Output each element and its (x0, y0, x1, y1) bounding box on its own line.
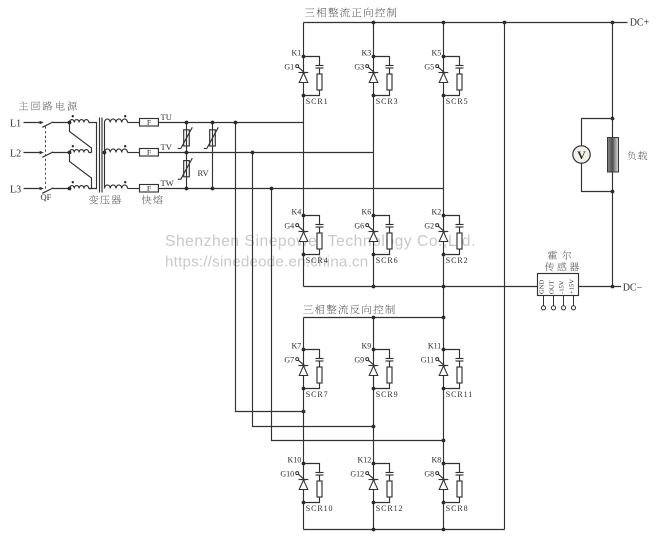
wire breaker to transformer L1 (53, 122, 70, 124)
snubber capacitor (SCR11) (456, 358, 464, 360)
snubber wires SCR8 (444, 464, 460, 503)
svg-text:G9: G9 (354, 355, 364, 364)
polarity dot primary 1 (72, 115, 74, 117)
svg-text:K11: K11 (428, 341, 441, 350)
title: three-phase rectifier forward control (305, 7, 396, 17)
load resistor (608, 138, 619, 173)
thyristor SCR7: junction triangle (299, 366, 308, 376)
node SCR3 anode (372, 94, 376, 98)
wire phase V (TV) (158, 152, 373, 154)
svg-text:G3: G3 (354, 62, 364, 71)
node K5 (cathode) (442, 55, 446, 59)
snubber capacitor (SCR3) (386, 65, 394, 67)
snubber capacitor (SCR2) (456, 224, 464, 226)
thyristor SCR9: cathode bar (369, 365, 379, 367)
svg-text:L1: L1 (10, 119, 21, 130)
svg-text:G6: G6 (354, 221, 364, 230)
svg-text:L2: L2 (10, 149, 21, 160)
wire L3 to breaker (24, 188, 41, 190)
svg-text:F: F (147, 184, 152, 193)
label: hall sensor (huoer chuanganqi) (548, 250, 571, 259)
node K8 (cathode) (442, 462, 446, 466)
node K10 (cathode) (302, 462, 306, 466)
polarity dot secondary 1 (124, 115, 126, 117)
node bottom rail / column V (372, 528, 376, 532)
wire: delta link primary 2-3 (70, 153, 92, 189)
svg-text:+15V: +15V (569, 279, 576, 294)
fuse F1 (140, 119, 159, 127)
fuse F3 (140, 185, 159, 193)
gate terminal G12 (366, 472, 369, 475)
wire DC+ return bus (right) (504, 23, 506, 530)
snubber capacitor (SCR8) (456, 472, 464, 474)
transformer T primary winding 1 (70, 120, 89, 123)
thyristor SCR2: junction triangle (439, 232, 448, 242)
svg-text:G5: G5 (424, 62, 434, 71)
node phase V tap (251, 151, 255, 155)
label: main circuit power supply (19, 101, 77, 110)
snubber wires SCR11 (444, 350, 460, 389)
node load branch top (611, 117, 615, 121)
node top rail / column V (372, 21, 376, 25)
svg-text:G1: G1 (284, 62, 294, 71)
svg-text:TV: TV (161, 142, 173, 152)
node K7 (cathode) (302, 348, 306, 352)
svg-text:SCR9: SCR9 (376, 390, 399, 399)
thyristor SCR4: cathode bar (299, 231, 309, 233)
svg-text:K2: K2 (432, 207, 442, 216)
transformer T primary winding 2 (70, 150, 89, 153)
transformer T primary winding 3 (70, 186, 89, 189)
thyristor SCR9: junction triangle (369, 366, 378, 376)
svg-text:DC+: DC+ (630, 18, 650, 29)
snubber resistor (SCR11) (457, 367, 462, 383)
wire column U lower (303, 318, 305, 530)
thyristor SCR6: cathode bar (369, 231, 379, 233)
thyristor SCR8: cathode bar (439, 479, 449, 481)
svg-text:G11: G11 (421, 355, 434, 364)
svg-text:SCR1: SCR1 (306, 97, 329, 106)
thyristor SCR5: junction triangle (439, 73, 448, 83)
snubber wires SCR9 (374, 350, 390, 389)
thyristor SCR3: junction triangle (369, 73, 378, 83)
breaker QF pole L2: blade (42, 152, 53, 157)
svg-text:G10: G10 (280, 469, 294, 478)
wire DC+ top rail (304, 22, 628, 24)
thyristor SCR11: cathode bar (439, 365, 449, 367)
snubber resistor (SCR4) (317, 233, 322, 249)
node RV2 top (211, 121, 215, 125)
wire L1 to breaker (24, 122, 41, 124)
thyristor SCR4: junction triangle (299, 232, 308, 242)
node SCR6 anode (372, 253, 376, 257)
svg-text:G12: G12 (350, 469, 364, 478)
snubber wires SCR7 (304, 350, 320, 389)
wire phase W (TW) (158, 188, 443, 190)
breaker QF pole L3: blade (42, 188, 53, 193)
polarity dot primary 2 (72, 145, 74, 147)
voltmeter PV (573, 146, 590, 163)
node SCR9 anode (372, 387, 376, 391)
svg-text:SCR7: SCR7 (306, 390, 329, 399)
snubber resistor (SCR2) (457, 233, 462, 249)
svg-text:K10: K10 (288, 455, 302, 464)
snubber capacitor (SCR4) (316, 224, 324, 226)
snubber wires SCR1 (304, 57, 320, 96)
transformer core (99, 118, 101, 193)
wire column V lower (373, 318, 375, 530)
polarity dot primary 3 (72, 181, 74, 183)
label: fast fuse (kuairong) (142, 195, 163, 204)
svg-text:G2: G2 (424, 221, 434, 230)
node: primary 1 input (68, 121, 72, 125)
thyristor SCR11: junction triangle (439, 366, 448, 376)
node reverse rail / column W (442, 316, 446, 320)
snubber capacitor (SCR1) (316, 65, 324, 67)
gate terminal G4 (296, 224, 299, 227)
snubber resistor (SCR12) (387, 481, 392, 497)
node reverse bridge phase W (442, 439, 446, 443)
node K11 (cathode) (442, 348, 446, 352)
node load branch bottom (611, 190, 615, 194)
gate terminal G11 (436, 358, 439, 361)
svg-text:GND: GND (539, 279, 546, 294)
thyristor SCR1: junction triangle (299, 73, 308, 83)
wire column W (SCR5/2/11/8) (443, 23, 445, 530)
svg-text:K3: K3 (362, 48, 372, 57)
wire secondary 3 to fuse (128, 188, 140, 190)
node RV1 bottom (185, 151, 189, 155)
gate terminal G8 (436, 472, 439, 475)
node DC- rail / column W (442, 285, 446, 289)
thyristor SCR5: cathode bar (439, 72, 449, 74)
thyristor SCR7: cathode bar (299, 365, 309, 367)
thyristor SCR6: junction triangle (369, 232, 378, 242)
svg-text:DC−: DC− (623, 282, 643, 293)
node SCR1 anode (302, 94, 306, 98)
title: three-phase rectifier reverse control (303, 304, 394, 314)
node SCR8 anode (442, 501, 446, 505)
snubber wires SCR10 (304, 464, 320, 503)
wire breaker to transformer L3 (53, 188, 70, 190)
gate terminal G6 (366, 224, 369, 227)
snubber resistor (SCR6) (387, 233, 392, 249)
node K1 (cathode) (302, 55, 306, 59)
node SCR10 anode (302, 501, 306, 505)
node top rail / DC+ return bus (503, 21, 507, 25)
varistor RV2 (U-W) (210, 130, 216, 146)
wire phase V drop to reverse bridge (253, 153, 374, 427)
svg-text:K7: K7 (292, 341, 302, 350)
label: transformer (bianyaqi) (89, 195, 121, 204)
wire RV2 (212, 123, 214, 189)
svg-text:K12: K12 (358, 455, 372, 464)
thyristor SCR8: junction triangle (439, 480, 448, 490)
svg-text:V: V (577, 148, 586, 162)
node SCR7 anode (302, 387, 306, 391)
gate terminal G1 (296, 65, 299, 68)
node SCR11 anode (442, 387, 446, 391)
wire: delta link primary 1-2 (70, 123, 92, 153)
wire L2 to breaker (24, 152, 41, 154)
node RV2 bottom (211, 187, 215, 191)
svg-text:SCR3: SCR3 (376, 97, 399, 106)
snubber resistor (SCR3) (387, 74, 392, 90)
transformer secondary star bus (104, 123, 106, 189)
node: star point (103, 151, 107, 155)
snubber resistor (SCR8) (457, 481, 462, 497)
node K9 (cathode) (372, 348, 376, 352)
svg-text:K9: K9 (362, 341, 372, 350)
transformer T secondary winding 3 (105, 185, 128, 189)
snubber resistor (SCR10) (317, 481, 322, 497)
node reverse bridge phase U (302, 410, 306, 414)
wire: delta link primary 3-1 (right side) (89, 123, 97, 189)
fuse F2 (140, 149, 159, 157)
svg-text:L3: L3 (10, 185, 21, 196)
thyristor SCR2: cathode bar (439, 231, 449, 233)
svg-text:SCR10: SCR10 (306, 504, 334, 513)
wire load feeder (612, 23, 614, 287)
svg-text:SCR11: SCR11 (446, 390, 473, 399)
breaker QF pole L1: contact arrow (40, 121, 44, 124)
varistor RV1 (U-V) (184, 130, 190, 146)
wire voltmeter branch (582, 119, 613, 192)
thyristor SCR10: cathode bar (299, 479, 309, 481)
breaker QF linkage (dashed) (45, 127, 47, 191)
node SCR4 anode (302, 253, 306, 257)
svg-text:F: F (147, 148, 152, 157)
snubber capacitor (SCR12) (386, 472, 394, 474)
wire reverse bridge bottom rail (304, 529, 505, 531)
svg-text:SCR8: SCR8 (446, 504, 469, 513)
label: load (fuzai) (627, 151, 647, 160)
snubber capacitor (SCR7) (316, 358, 324, 360)
node K12 (cathode) (372, 462, 376, 466)
snubber capacitor (SCR5) (456, 65, 464, 67)
node K6 (cathode) (372, 214, 376, 218)
node reverse rail / column V (372, 316, 376, 320)
snubber resistor (SCR5) (457, 74, 462, 90)
wire column U (SCR1/4/7/10) upper (303, 23, 305, 287)
snubber capacitor (SCR6) (386, 224, 394, 226)
breaker QF pole L1: blade (42, 122, 53, 127)
gate terminal G9 (366, 358, 369, 361)
svg-text:SCR5: SCR5 (446, 97, 469, 106)
wire phase U (TU) (158, 122, 303, 124)
node top rail / column W (442, 21, 446, 25)
thyristor SCR1: cathode bar (299, 72, 309, 74)
node K4 (cathode) (302, 214, 306, 218)
transformer T secondary winding 1 (105, 119, 128, 123)
wire breaker to transformer L2 (53, 152, 70, 154)
node DC- rail / column V (372, 285, 376, 289)
svg-text:TW: TW (161, 178, 174, 188)
svg-text:K5: K5 (432, 48, 442, 57)
svg-text:SCR4: SCR4 (306, 256, 329, 265)
svg-text:K1: K1 (292, 48, 302, 57)
wire column V (SCR3/6/9/12) upper (373, 23, 375, 287)
svg-text:F: F (147, 118, 152, 127)
snubber resistor (SCR1) (317, 74, 322, 90)
varistor RV3 (V-W) (184, 161, 190, 177)
breaker QF pole L2: contact arrow (40, 151, 44, 154)
wire DC- rail (forward bridge cathode bus) (304, 286, 538, 288)
wire RV3 (186, 153, 188, 189)
svg-text:QF: QF (41, 192, 52, 202)
snubber resistor (SCR7) (317, 367, 322, 383)
node phase U tap (234, 121, 238, 125)
node SCR5 anode (442, 94, 446, 98)
thyristor SCR12: junction triangle (369, 480, 378, 490)
gate terminal G7 (296, 358, 299, 361)
wire secondary 2 to fuse (128, 152, 140, 154)
node bottom rail / column W (442, 528, 446, 532)
snubber resistor (SCR9) (387, 367, 392, 383)
snubber capacitor (SCR10) (316, 472, 324, 474)
polarity dot secondary 2 (124, 145, 126, 147)
node SCR12 anode (372, 501, 376, 505)
node reverse bridge phase V (372, 425, 376, 429)
wire phase W drop to reverse bridge (272, 189, 444, 441)
snubber wires SCR2 (444, 216, 460, 255)
gate terminal G2 (436, 224, 439, 227)
svg-text:SCR12: SCR12 (376, 504, 404, 513)
node DC- junction (611, 285, 615, 289)
svg-text:K6: K6 (362, 207, 372, 216)
node: primary 2 input (68, 151, 72, 155)
node top rail / load branch (611, 21, 615, 25)
node SCR2 anode (442, 253, 446, 257)
transformer T secondary winding 2 (105, 149, 128, 153)
thyristor SCR3: cathode bar (369, 72, 379, 74)
hall current sensor body (538, 274, 579, 296)
svg-text:TU: TU (161, 112, 172, 122)
svg-text:OUT: OUT (549, 280, 556, 294)
gate terminal G5 (436, 65, 439, 68)
node K3 (cathode) (372, 55, 376, 59)
wire RV1 (186, 123, 188, 153)
thyristor SCR12: cathode bar (369, 479, 379, 481)
gate terminal G3 (366, 65, 369, 68)
snubber wires SCR5 (444, 57, 460, 96)
snubber wires SCR6 (374, 216, 390, 255)
gate terminal G10 (296, 472, 299, 475)
wire reverse bridge top rail (304, 317, 444, 319)
svg-text:https://sinedeode.en.china.cn: https://sinedeode.en.china.cn (165, 254, 368, 271)
node RV3 bottom (185, 187, 189, 191)
svg-text:SCR2: SCR2 (446, 256, 469, 265)
svg-text:SCR6: SCR6 (376, 256, 399, 265)
wire hall sensor output to DC- (579, 286, 622, 288)
node RV1 top (185, 121, 189, 125)
node: primary 3 input (68, 187, 72, 191)
polarity dot secondary 3 (124, 181, 126, 183)
node K2 (cathode) (442, 214, 446, 218)
thyristor SCR10: junction triangle (299, 480, 308, 490)
svg-text:G8: G8 (424, 469, 434, 478)
svg-text:G7: G7 (284, 355, 294, 364)
svg-text:G4: G4 (284, 221, 294, 230)
wire secondary 1 to fuse (128, 122, 140, 124)
snubber wires SCR4 (304, 216, 320, 255)
snubber wires SCR12 (374, 464, 390, 503)
breaker QF pole L3: contact arrow (40, 187, 44, 190)
snubber wires SCR3 (374, 57, 390, 96)
svg-text:RV: RV (198, 168, 210, 178)
svg-text:-15V: -15V (559, 280, 566, 294)
svg-text:K8: K8 (432, 455, 442, 464)
snubber capacitor (SCR9) (386, 358, 394, 360)
svg-text:K4: K4 (292, 207, 302, 216)
wire phase U drop to reverse bridge (236, 123, 304, 412)
node phase W tap (270, 187, 274, 191)
